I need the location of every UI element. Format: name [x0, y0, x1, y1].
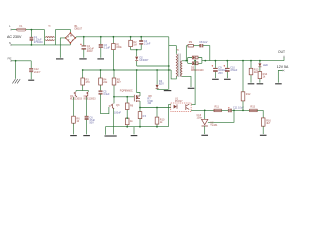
svg-text:C8 1kV: C8 1kV	[199, 41, 208, 44]
junction rail C2	[83, 36, 85, 38]
resistor R11	[214, 106, 221, 112]
capacitor C9	[212, 61, 228, 79]
wire R11 to comp	[221, 109, 228, 111]
wire secondary top	[182, 60, 186, 62]
ground C3	[97, 58, 104, 60]
wire base split	[76, 90, 89, 92]
svg-text:MJE13003: MJE13003	[84, 98, 97, 101]
capacitor C3	[99, 37, 111, 58]
pin L	[9, 24, 12, 30]
resistor R5	[112, 70, 121, 103]
resistor R12 divider top	[241, 61, 251, 111]
wire gate line	[114, 96, 134, 98]
junction divider tap	[242, 110, 244, 112]
capacitor C6	[85, 116, 96, 124]
transistor Q1	[70, 92, 83, 101]
junction rail C3	[100, 36, 102, 38]
svg-text:150k: 150k	[116, 46, 122, 49]
capacitor C7	[125, 96, 133, 127]
svg-text:R12: R12	[246, 93, 251, 96]
ground emitter bus	[131, 135, 138, 137]
svg-text:R15: R15	[250, 106, 255, 109]
capacitor C2 bulk	[80, 37, 94, 58]
MOSFET Q4	[134, 70, 140, 108]
resistor R9 snubber	[186, 41, 199, 47]
svg-text:Tr: Tr	[48, 25, 50, 28]
junction R10 bottom	[156, 126, 158, 128]
wire line A	[137, 65, 169, 67]
wire primary bottom	[171, 70, 176, 79]
ground mid	[164, 90, 172, 92]
svg-text:FQP8N60C: FQP8N60C	[120, 90, 133, 93]
wire DC rail	[75, 37, 169, 38]
wire to R11	[205, 109, 214, 111]
junction R12 tap	[242, 60, 244, 62]
bridge rectifier B1	[65, 25, 83, 44]
wire Q3 emitter to ground	[113, 109, 115, 135]
LED	[258, 61, 268, 67]
choke Tr common-mode	[45, 25, 56, 45]
svg-text:R11: R11	[215, 106, 220, 109]
chassis ground	[28, 79, 34, 81]
testpoint mark	[144, 98, 146, 100]
svg-text:4k7: 4k7	[266, 122, 271, 125]
ground R16	[260, 134, 267, 136]
ground Q3	[105, 135, 117, 137]
wire comp line	[232, 109, 250, 111]
svg-text:50V: 50V	[89, 122, 94, 125]
earth ground	[12, 79, 20, 83]
svg-text:Tr: Tr	[177, 49, 179, 52]
ground R13	[248, 83, 255, 85]
wire bridge minus to ground	[60, 38, 65, 58]
wire emitter bus	[105, 126, 168, 128]
pin N	[9, 41, 12, 46]
transformer TR1	[176, 49, 182, 77]
capacitor C1 X-cap	[30, 30, 44, 45]
wire choke to bridge	[55, 30, 70, 33]
svg-text:12V 5A: 12V 5A	[277, 65, 289, 69]
junction C9	[215, 60, 217, 62]
wire C5 down to y115	[101, 94, 109, 114]
svg-text:0.5: 0.5	[143, 115, 147, 118]
wire primary bus	[83, 69, 171, 71]
junction R13	[250, 60, 252, 62]
ground bridge minus	[56, 58, 63, 60]
junction bus x82.7	[82, 69, 84, 71]
junction N/X-cap	[31, 44, 33, 46]
diode D4	[149, 70, 168, 98]
connector out	[275, 70, 284, 84]
junction TL431	[204, 110, 206, 112]
resistor R6	[72, 116, 81, 123]
junction bus x136.7	[136, 69, 138, 71]
capacitor C11 comp	[228, 107, 244, 113]
pin PE	[8, 57, 13, 62]
svg-text:BZX: BZX	[159, 83, 164, 86]
svg-text:0.1uF: 0.1uF	[104, 46, 111, 49]
junction opto anode / source	[139, 107, 141, 109]
junction D2 top	[136, 49, 138, 51]
junction bus x157.4	[156, 69, 158, 71]
svg-text:470uF: 470uF	[230, 69, 238, 72]
resistor R15 comp	[250, 106, 258, 112]
ground C10	[224, 78, 231, 80]
resistor R7 sense	[138, 108, 146, 127]
resistor R4	[99, 70, 108, 90]
svg-text:2k2: 2k2	[254, 71, 259, 74]
svg-text:400V: 400V	[87, 50, 93, 53]
junction rail R1	[113, 36, 115, 38]
junction C10	[226, 60, 228, 62]
wire opto emitter out	[191, 109, 205, 111]
svg-text:1W: 1W	[147, 102, 151, 105]
svg-text:UF4007: UF4007	[140, 59, 150, 62]
svg-text:MJE13003: MJE13003	[70, 98, 83, 101]
wire output rail	[205, 60, 284, 62]
svg-text:2.2nF: 2.2nF	[144, 43, 151, 46]
svg-text:25V: 25V	[218, 72, 223, 75]
resistor R2	[129, 37, 137, 50]
transistor Q2	[84, 92, 97, 101]
diode D2	[135, 50, 149, 66]
wire Q1 emitter	[73, 97, 75, 116]
ground secondary	[188, 87, 195, 89]
wire PE	[11, 60, 31, 62]
wire PE down	[15, 61, 17, 79]
resistor R10	[155, 107, 165, 127]
svg-text:3.3uF: 3.3uF	[103, 93, 110, 96]
wire secondary bottom to ground	[182, 76, 191, 87]
svg-text:100n: 100n	[197, 116, 203, 119]
resistor R3	[81, 70, 90, 90]
optocoupler U1	[171, 98, 191, 112]
wire C6 to ground	[86, 120, 88, 135]
resistor R1 startup	[112, 37, 123, 70]
wire opto anode	[140, 107, 171, 109]
junction gate	[113, 96, 115, 98]
svg-text:PE: PE	[8, 57, 12, 61]
wire snubber riser	[185, 46, 187, 61]
diode D5 output	[186, 56, 205, 72]
wire rail corner to transformer	[168, 37, 170, 90]
wire fuse to choke	[26, 29, 45, 31]
ground Q2	[83, 135, 90, 137]
capacitor C8 snubber	[199, 41, 210, 60]
svg-text:OUT: OUT	[278, 50, 285, 54]
junction bus x100.5	[100, 69, 102, 71]
svg-text:470: 470	[86, 81, 91, 84]
wire N up into bridge	[69, 43, 71, 45]
junction rail R2	[130, 36, 132, 38]
svg-text:AC 230V: AC 230V	[7, 35, 22, 39]
svg-text:MBR20100: MBR20100	[191, 69, 204, 72]
junction PE	[15, 60, 17, 62]
junction LED	[259, 60, 261, 62]
capacitor C4	[139, 37, 151, 50]
pin OUT	[278, 50, 285, 61]
wire emitter bus to ground	[133, 127, 135, 135]
ground TL431	[201, 134, 208, 136]
svg-text:TL431: TL431	[210, 124, 218, 127]
svg-text:PC817: PC817	[175, 100, 183, 103]
junction opto riser	[194, 60, 196, 62]
resistor R16 divider bottom	[261, 118, 271, 134]
ground C9	[212, 78, 219, 80]
capacitor C5	[99, 90, 111, 96]
svg-text:1M: 1M	[133, 44, 136, 47]
capacitor C10	[224, 61, 238, 79]
resistor R14	[258, 67, 268, 83]
svg-text:275VAC: 275VAC	[34, 41, 43, 44]
fuse F1	[17, 25, 27, 31]
wire R6 to ground	[73, 123, 75, 134]
wire L to fuse	[12, 29, 17, 31]
wire opto cathode drop	[168, 105, 170, 127]
TL431 U2	[202, 110, 235, 135]
svg-text:C11 10uF: C11 10uF	[233, 107, 244, 110]
svg-text:4k7: 4k7	[117, 81, 122, 84]
ground LED	[257, 83, 264, 85]
svg-text:LED: LED	[263, 64, 268, 67]
wire opto collector riser	[191, 61, 195, 105]
junction L/X-cap	[31, 29, 33, 31]
svg-text:2n2/Y: 2n2/Y	[34, 71, 41, 74]
transistor Q3	[109, 103, 122, 114]
junction line A right	[168, 65, 170, 67]
resistor R13 dummy load	[249, 61, 259, 83]
junction sense bottom	[139, 126, 141, 128]
wire R2/C4 bottoms	[131, 49, 142, 51]
junction bus x168.8	[168, 69, 170, 71]
junction bus x114	[113, 69, 115, 71]
wire comp to divider	[257, 110, 263, 118]
svg-text:100nF: 100nF	[114, 112, 122, 115]
ground C2	[79, 58, 86, 60]
svg-text:DB107: DB107	[75, 27, 83, 30]
junction output node	[204, 60, 206, 62]
capacitor C12 Y-cap	[29, 61, 41, 79]
ground Q1	[70, 135, 77, 137]
junction rail C4	[140, 36, 142, 38]
wire Q2 emitter	[86, 97, 88, 116]
wire N	[12, 44, 71, 46]
